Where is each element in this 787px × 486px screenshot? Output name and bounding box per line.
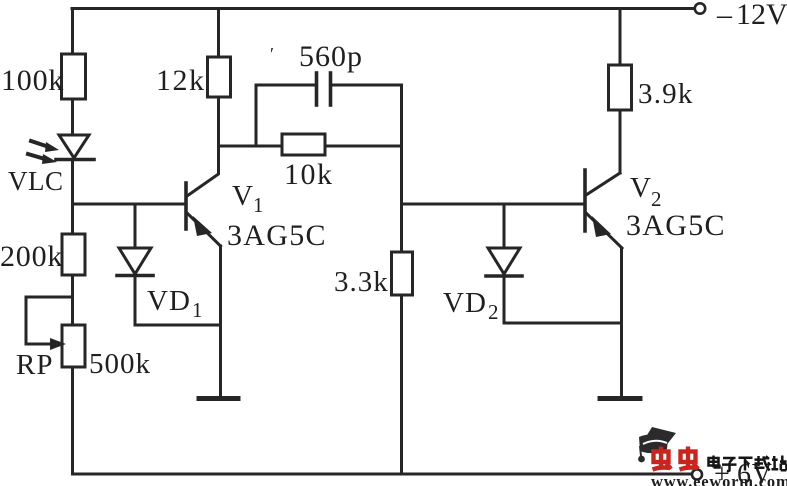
label -12V	[716, 0, 787, 31]
svg-text:′: ′	[270, 44, 274, 64]
diode VD2	[486, 204, 522, 323]
svg-text:3.9k: 3.9k	[638, 78, 694, 110]
label 10k	[284, 158, 334, 191]
ground (V2)	[600, 396, 640, 401]
label V2	[630, 172, 662, 211]
watermark: 电子下载站	[709, 456, 787, 472]
label 560p	[270, 40, 363, 73]
svg-text:www.eeworm.com: www.eeworm.com	[651, 472, 787, 486]
svg-text:2: 2	[651, 187, 662, 211]
svg-text:1: 1	[192, 298, 203, 322]
label 200k	[0, 240, 63, 273]
svg-text:3AG5C: 3AG5C	[227, 219, 327, 252]
capacitor 560p	[256, 73, 401, 146]
svg-text:V: V	[232, 180, 253, 212]
label +6V	[714, 459, 773, 486]
label 500k	[89, 348, 151, 380]
svg-text:10k: 10k	[284, 158, 334, 191]
svg-text:–12V: –12V	[716, 0, 787, 31]
watermark: www.eeworm.com	[651, 472, 787, 486]
wire: V2 base wire	[402, 203, 586, 206]
label 3.3k	[334, 266, 389, 298]
wire: V1 base wire	[73, 203, 186, 206]
wire: V2 emitter	[620, 248, 623, 397]
label 3AG5C (V1)	[227, 219, 327, 252]
label 100k	[1, 64, 64, 97]
label 12k	[156, 64, 206, 97]
label 3.9k	[638, 78, 694, 110]
resistor 200k	[62, 234, 85, 275]
svg-text:200k: 200k	[0, 240, 63, 273]
watermark: red 虫虫	[653, 447, 699, 470]
svg-text:100k: 100k	[1, 64, 64, 97]
label VLC	[8, 166, 64, 196]
svg-text:VLC: VLC	[8, 166, 64, 196]
wire: VD1 anode to V1 emitter	[135, 324, 221, 327]
svg-text:3AG5C: 3AG5C	[626, 209, 726, 242]
wire: VD2 anode to V2 emitter	[504, 322, 622, 325]
svg-text:2: 2	[488, 300, 499, 324]
resistor 100k	[62, 54, 86, 99]
label VD1	[147, 285, 203, 322]
terminal: +6V	[692, 470, 702, 480]
svg-text:V: V	[630, 172, 651, 204]
svg-text:VD: VD	[443, 287, 487, 319]
transistor V1	[186, 146, 221, 246]
wire: left vertical rail	[71, 9, 74, 475]
svg-text:VD: VD	[147, 285, 191, 317]
label RP	[16, 349, 53, 381]
resistor 12k	[208, 9, 231, 147]
label 3AG5C (V2)	[626, 209, 726, 242]
svg-text:12k: 12k	[156, 64, 206, 97]
resistor 10k	[219, 134, 402, 155]
photodiode VLC	[28, 135, 94, 164]
transistor V2	[585, 170, 622, 248]
watermark: graduation cap	[638, 427, 676, 462]
svg-text:3.3k: 3.3k	[334, 266, 389, 298]
potentiometer RP 500k	[26, 297, 85, 367]
diode VD1	[117, 204, 153, 325]
resistor 3.3k	[392, 252, 413, 295]
svg-text:RP: RP	[16, 349, 53, 381]
ground (V1)	[199, 396, 238, 401]
wire: right vertical (V2 base node)	[400, 85, 403, 474]
wire: bottom +6V rail	[73, 473, 691, 476]
wire: V1 emitter	[219, 246, 222, 397]
label VD2	[443, 287, 499, 324]
wire: top -12V supply rail	[72, 7, 694, 10]
svg-text:560p: 560p	[299, 40, 363, 73]
resistor 3.9k	[609, 9, 632, 174]
svg-text:500k: 500k	[89, 348, 151, 380]
label V1	[232, 180, 264, 217]
terminal: -12V	[695, 3, 705, 13]
svg-text:1: 1	[253, 193, 264, 217]
